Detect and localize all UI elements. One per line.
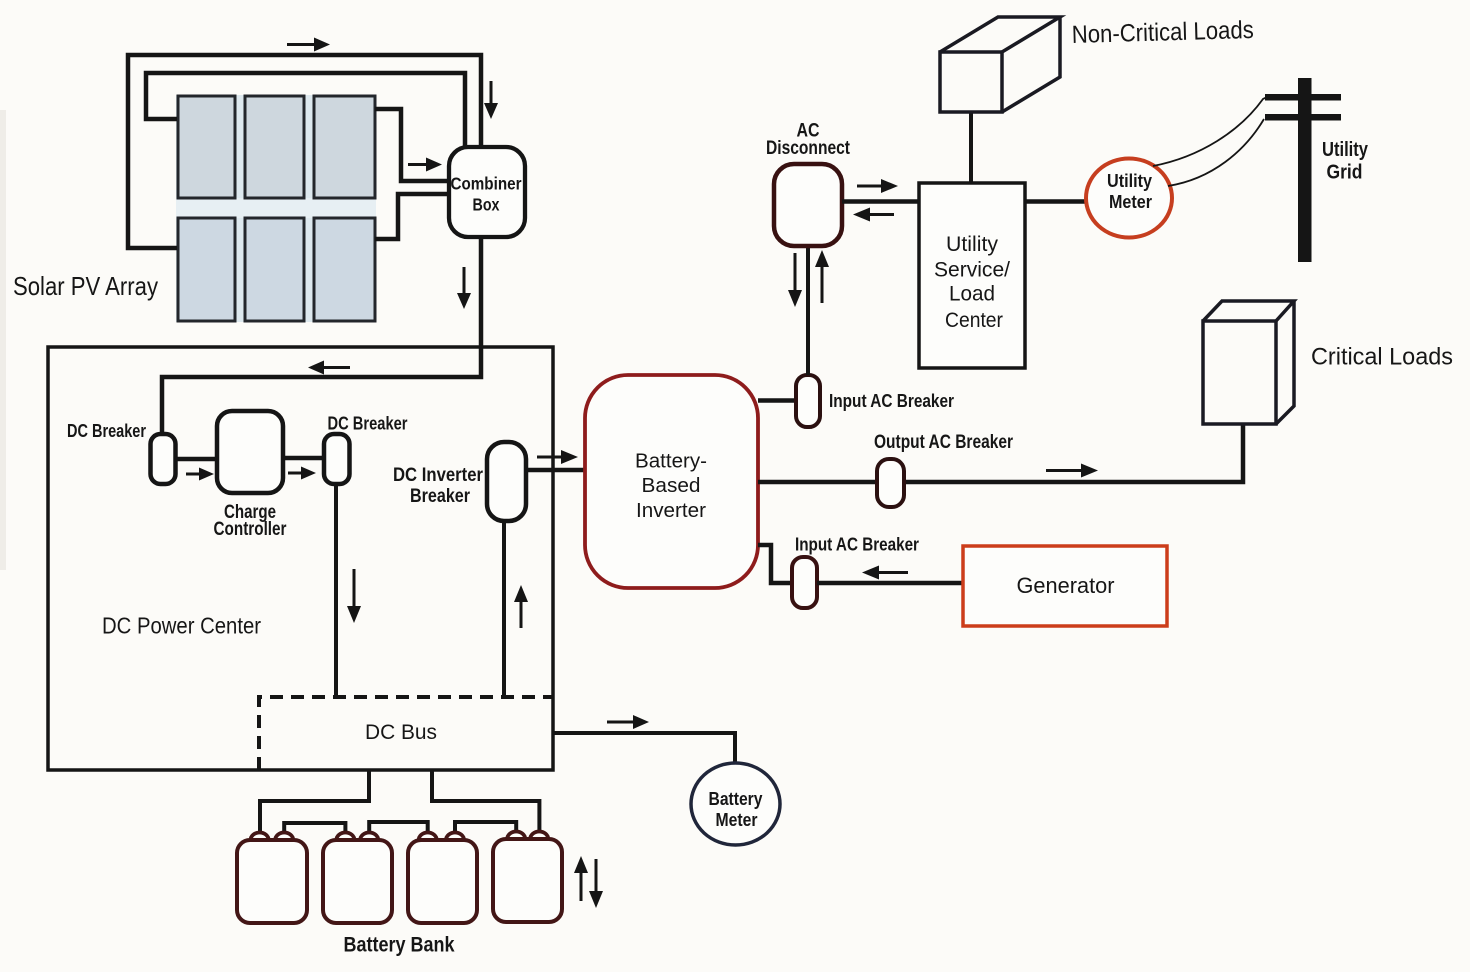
- wire: AC disconnect to utility service center: [842, 199, 921, 204]
- wire: DC inverter breaker to inverter: [526, 468, 588, 473]
- svg-text:Utility: Utility: [1107, 171, 1152, 191]
- wire: non-critical loads down to utility box: [969, 112, 973, 183]
- arrow left generator-to-breaker: [862, 566, 908, 580]
- battery 3: [408, 833, 477, 923]
- arrow right breaker1-to-controller: [186, 468, 214, 481]
- output AC breaker: [877, 459, 904, 507]
- battery meter: [691, 763, 780, 845]
- arrow right disconnect-to-utility: [857, 179, 898, 193]
- svg-text:DC Bus: DC Bus: [365, 720, 437, 744]
- utility service / load center: [919, 183, 1025, 368]
- svg-text:Controller: Controller: [214, 519, 287, 540]
- wire: DC bus down-right to battery bank: [432, 770, 539, 836]
- utility pole: [1298, 78, 1312, 262]
- arrow left inside DC power center top: [308, 361, 350, 375]
- battery-based inverter U2: [585, 375, 758, 588]
- arrow right controller-to-breaker2: [288, 467, 316, 480]
- DC bus dashed box: [259, 697, 553, 770]
- critical loads box: [1203, 301, 1294, 424]
- svg-text:Center: Center: [945, 308, 1003, 332]
- DC inverter breaker: [487, 442, 526, 521]
- svg-text:DC Inverter: DC Inverter: [393, 465, 484, 486]
- svg-text:Based: Based: [642, 474, 701, 497]
- wire: row1 right side to combiner box: [375, 109, 451, 181]
- input AC breaker (top): [796, 375, 820, 427]
- non-critical loads box: [940, 17, 1060, 112]
- battery 1: [237, 833, 307, 923]
- wire: battery2-battery3 series link: [369, 822, 428, 836]
- utility meter: [1086, 159, 1172, 238]
- wire: row2 right side to combiner box: [375, 194, 451, 239]
- svg-text:Meter: Meter: [716, 810, 758, 830]
- DC power center box: [48, 347, 553, 770]
- combiner box: [449, 147, 525, 237]
- svg-text:Input AC Breaker: Input AC Breaker: [795, 535, 919, 555]
- wire: DC bus down-left to battery bank: [260, 770, 369, 836]
- svg-text:DC Power Center: DC Power Center: [102, 613, 261, 639]
- wire: outer loop from row2 panels to combiner box: [128, 55, 481, 248]
- wire: meter to pole bottom conductor: [1168, 119, 1264, 186]
- svg-text:Breaker: Breaker: [410, 486, 471, 507]
- arrow left utility-to-disconnect: [853, 208, 894, 222]
- wire: battery1-battery2 series link: [284, 823, 345, 836]
- svg-text:Battery: Battery: [709, 789, 763, 809]
- svg-text:Inverter: Inverter: [636, 499, 706, 522]
- svg-text:DC Breaker: DC Breaker: [328, 414, 408, 434]
- wire: breaker1 to charge controller: [175, 457, 219, 462]
- arrow down right of combiner top wire: [484, 81, 498, 119]
- wire: breaker2 down to DC bus: [334, 484, 338, 699]
- svg-text:Box: Box: [473, 195, 500, 215]
- svg-text:Battery-: Battery-: [635, 450, 707, 473]
- arrow down combiner-to-DC: [457, 267, 471, 309]
- arrow down left of AC disconnect wire: [788, 253, 802, 307]
- svg-text:Utility: Utility: [1322, 139, 1369, 161]
- wire: DC inverter breaker down to DC bus: [502, 521, 506, 699]
- svg-text:Solar PV Array: Solar PV Array: [13, 271, 158, 301]
- wire: inverter to input AC breaker (bottom) / generator: [758, 545, 794, 583]
- svg-text:Disconnect: Disconnect: [766, 137, 850, 159]
- svg-text:Battery Bank: Battery Bank: [344, 934, 455, 957]
- PV panel row1 col1: [178, 96, 235, 198]
- AC disconnect: [774, 164, 842, 246]
- scan edge shading left: [0, 110, 6, 570]
- PV panel row1 col2: [245, 96, 304, 198]
- DC breaker 2: [324, 434, 350, 484]
- arrow right row1-to-combiner: [408, 158, 442, 172]
- svg-text:Grid: Grid: [1327, 162, 1363, 184]
- input AC breaker (bottom): [792, 557, 817, 608]
- wire: input AC breaker up to AC disconnect: [806, 247, 810, 375]
- PV panel row2 col2: [245, 218, 304, 321]
- svg-text:Utility: Utility: [946, 232, 998, 256]
- pole crossarm 1: [1265, 94, 1341, 101]
- svg-text:DC Breaker: DC Breaker: [67, 421, 146, 441]
- battery 4: [493, 832, 562, 923]
- wire: meter to pole top conductor: [1153, 97, 1267, 166]
- PV panel row1 col3: [314, 96, 375, 198]
- arrow right breaker-to-inverter: [537, 450, 578, 464]
- arrow up DC-bus-to-breaker: [514, 585, 528, 628]
- svg-text:Load: Load: [949, 282, 995, 306]
- arrow right output-to-critical: [1046, 464, 1098, 478]
- battery 2: [323, 833, 392, 923]
- arrow down breaker2 wire: [347, 569, 361, 623]
- arrow up right of AC disconnect wire: [815, 250, 829, 303]
- arrow right on top wire: [287, 38, 330, 52]
- PV panel row2 col1: [178, 218, 235, 321]
- solar PV array photo background: [176, 95, 376, 322]
- wire: inverter to input AC breaker (top): [758, 398, 798, 403]
- wire: battery3-battery4 series link: [455, 822, 516, 836]
- svg-text:Service/: Service/: [934, 258, 1010, 282]
- svg-text:Non-Critical Loads: Non-Critical Loads: [1071, 16, 1254, 49]
- DC breaker 1: [151, 434, 176, 484]
- svg-text:Generator: Generator: [1017, 573, 1115, 598]
- pole crossarm 2: [1265, 114, 1341, 121]
- wire: inverter output to critical loads: [758, 424, 1243, 482]
- svg-text:Meter: Meter: [1109, 192, 1152, 212]
- charge controller U1: [217, 411, 283, 493]
- svg-text:Input AC Breaker: Input AC Breaker: [829, 391, 954, 411]
- wire: utility box to utility meter: [1025, 199, 1089, 204]
- arrow right DC-bus-to-battery-meter: [607, 715, 649, 729]
- wire: combiner box down into DC power center: [162, 237, 481, 436]
- arrow down near battery4: [589, 859, 603, 908]
- wire: breaker to generator: [817, 581, 965, 586]
- arrow up near battery4: [574, 856, 588, 901]
- wire: inner loop from row1 panels to combiner box: [146, 73, 465, 148]
- svg-text:Output AC Breaker: Output AC Breaker: [874, 432, 1013, 453]
- wire: controller to breaker2: [283, 456, 326, 461]
- svg-text:Critical Loads: Critical Loads: [1311, 344, 1453, 371]
- generator G1: [963, 546, 1167, 626]
- PV panel row2 col3: [314, 218, 375, 321]
- svg-text:Combiner: Combiner: [451, 174, 522, 194]
- wire: DC bus to battery meter: [553, 733, 735, 763]
